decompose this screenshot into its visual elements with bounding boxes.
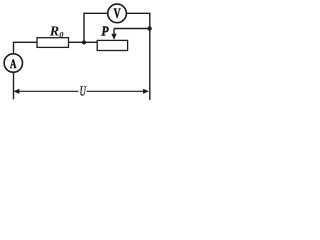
svg-text:R: R [49, 25, 59, 40]
wire wiper horizontal to right vertical [114, 28, 150, 30]
voltmeter V [108, 4, 127, 23]
wire wiper vertical drop [113, 29, 115, 35]
wire ammeter bottom to lower left terminal [13, 72, 15, 99]
voltage annotation U : right arrowhead [143, 89, 149, 94]
svg-text:0: 0 [59, 30, 64, 40]
potentiometer wiper arrowhead [111, 34, 116, 40]
wire voltmeter right horizontal [126, 12, 150, 14]
ammeter A [4, 54, 22, 72]
voltage annotation U : left arrow line [18, 90, 79, 92]
node junction dot right (wiper wire / right wire) [147, 26, 151, 30]
wire voltmeter left horizontal [83, 12, 108, 14]
resistor R0 [37, 38, 69, 48]
potentiometer P body [97, 40, 127, 50]
wire resistor right to potentiometer left [69, 41, 98, 43]
svg-text:P: P [101, 25, 109, 40]
wire voltmeter left riser from left node [83, 13, 85, 42]
voltage annotation U : right arrow line [87, 90, 146, 92]
node junction dot left (R0 / P / voltmeter lead) [82, 40, 86, 44]
wire left vertical (bend down to ammeter top) [13, 42, 15, 54]
voltage annotation U : left arrowhead [13, 89, 19, 94]
wire right vertical (down right side to lower right terminal) [149, 13, 151, 100]
svg-text:A: A [10, 56, 17, 71]
svg-text:U: U [80, 85, 87, 100]
svg-text:V: V [114, 6, 121, 22]
wire top-left horizontal (bend to resistor) [14, 41, 38, 43]
